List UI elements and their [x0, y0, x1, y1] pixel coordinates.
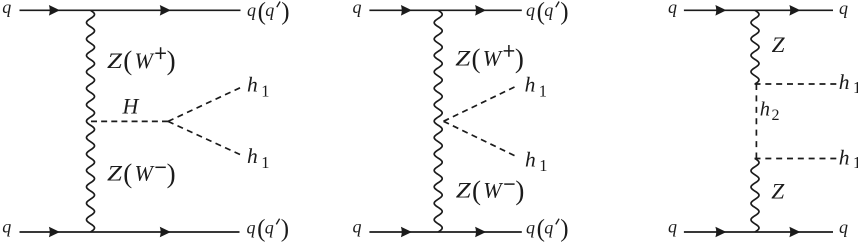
- svg-text:2: 2: [772, 107, 780, 124]
- svg-text:W: W: [135, 48, 155, 73]
- svg-text:1: 1: [539, 156, 547, 175]
- svg-text:q: q: [526, 217, 535, 237]
- svg-text:): ): [515, 43, 524, 73]
- svg-text:q: q: [668, 217, 677, 237]
- svg-text:(: (: [123, 46, 132, 76]
- svg-text:1: 1: [853, 78, 858, 97]
- svg-text:): ): [167, 159, 176, 189]
- svg-text:): ): [281, 216, 289, 243]
- svg-text:Z: Z: [771, 178, 785, 203]
- svg-text:(: (: [123, 159, 132, 189]
- svg-text:h: h: [839, 145, 850, 169]
- svg-text:Z: Z: [455, 46, 471, 71]
- svg-text:1: 1: [261, 153, 269, 172]
- svg-text:q: q: [353, 0, 362, 17]
- svg-text:q: q: [247, 0, 256, 20]
- svg-text:h: h: [525, 73, 536, 97]
- svg-text:q: q: [839, 0, 848, 18]
- svg-text:q: q: [668, 0, 677, 17]
- svg-text:): ): [560, 0, 568, 25]
- svg-text:q: q: [544, 217, 553, 237]
- svg-text:Z: Z: [772, 32, 786, 57]
- svg-text:h: h: [839, 70, 850, 94]
- svg-text:1: 1: [539, 81, 547, 100]
- svg-text:): ): [515, 175, 524, 205]
- svg-text:(: (: [472, 175, 481, 205]
- svg-text:q: q: [265, 217, 274, 237]
- svg-text:H: H: [122, 93, 140, 118]
- svg-text:q: q: [353, 217, 362, 237]
- svg-text:1: 1: [853, 153, 858, 172]
- svg-text:q: q: [265, 0, 274, 20]
- svg-text:Z: Z: [107, 48, 123, 73]
- svg-text:(: (: [472, 43, 481, 73]
- svg-text:Z: Z: [107, 161, 123, 186]
- svg-text:q: q: [839, 217, 848, 237]
- svg-text:W: W: [483, 178, 503, 203]
- svg-text:): ): [167, 46, 176, 76]
- svg-text:h: h: [247, 73, 258, 97]
- svg-text:Z: Z: [456, 178, 472, 203]
- svg-text:): ): [560, 216, 568, 243]
- svg-text:W: W: [483, 46, 503, 71]
- svg-text:q: q: [526, 0, 535, 20]
- svg-text:h: h: [525, 147, 536, 171]
- svg-text:W: W: [135, 161, 155, 186]
- svg-text:q: q: [2, 217, 11, 237]
- svg-text:q: q: [2, 0, 11, 17]
- svg-text:h: h: [247, 144, 258, 168]
- svg-text:): ): [281, 0, 289, 25]
- svg-text:h: h: [760, 98, 770, 120]
- svg-text:1: 1: [261, 82, 269, 101]
- svg-text:q: q: [247, 217, 256, 237]
- svg-text:q: q: [544, 0, 553, 20]
